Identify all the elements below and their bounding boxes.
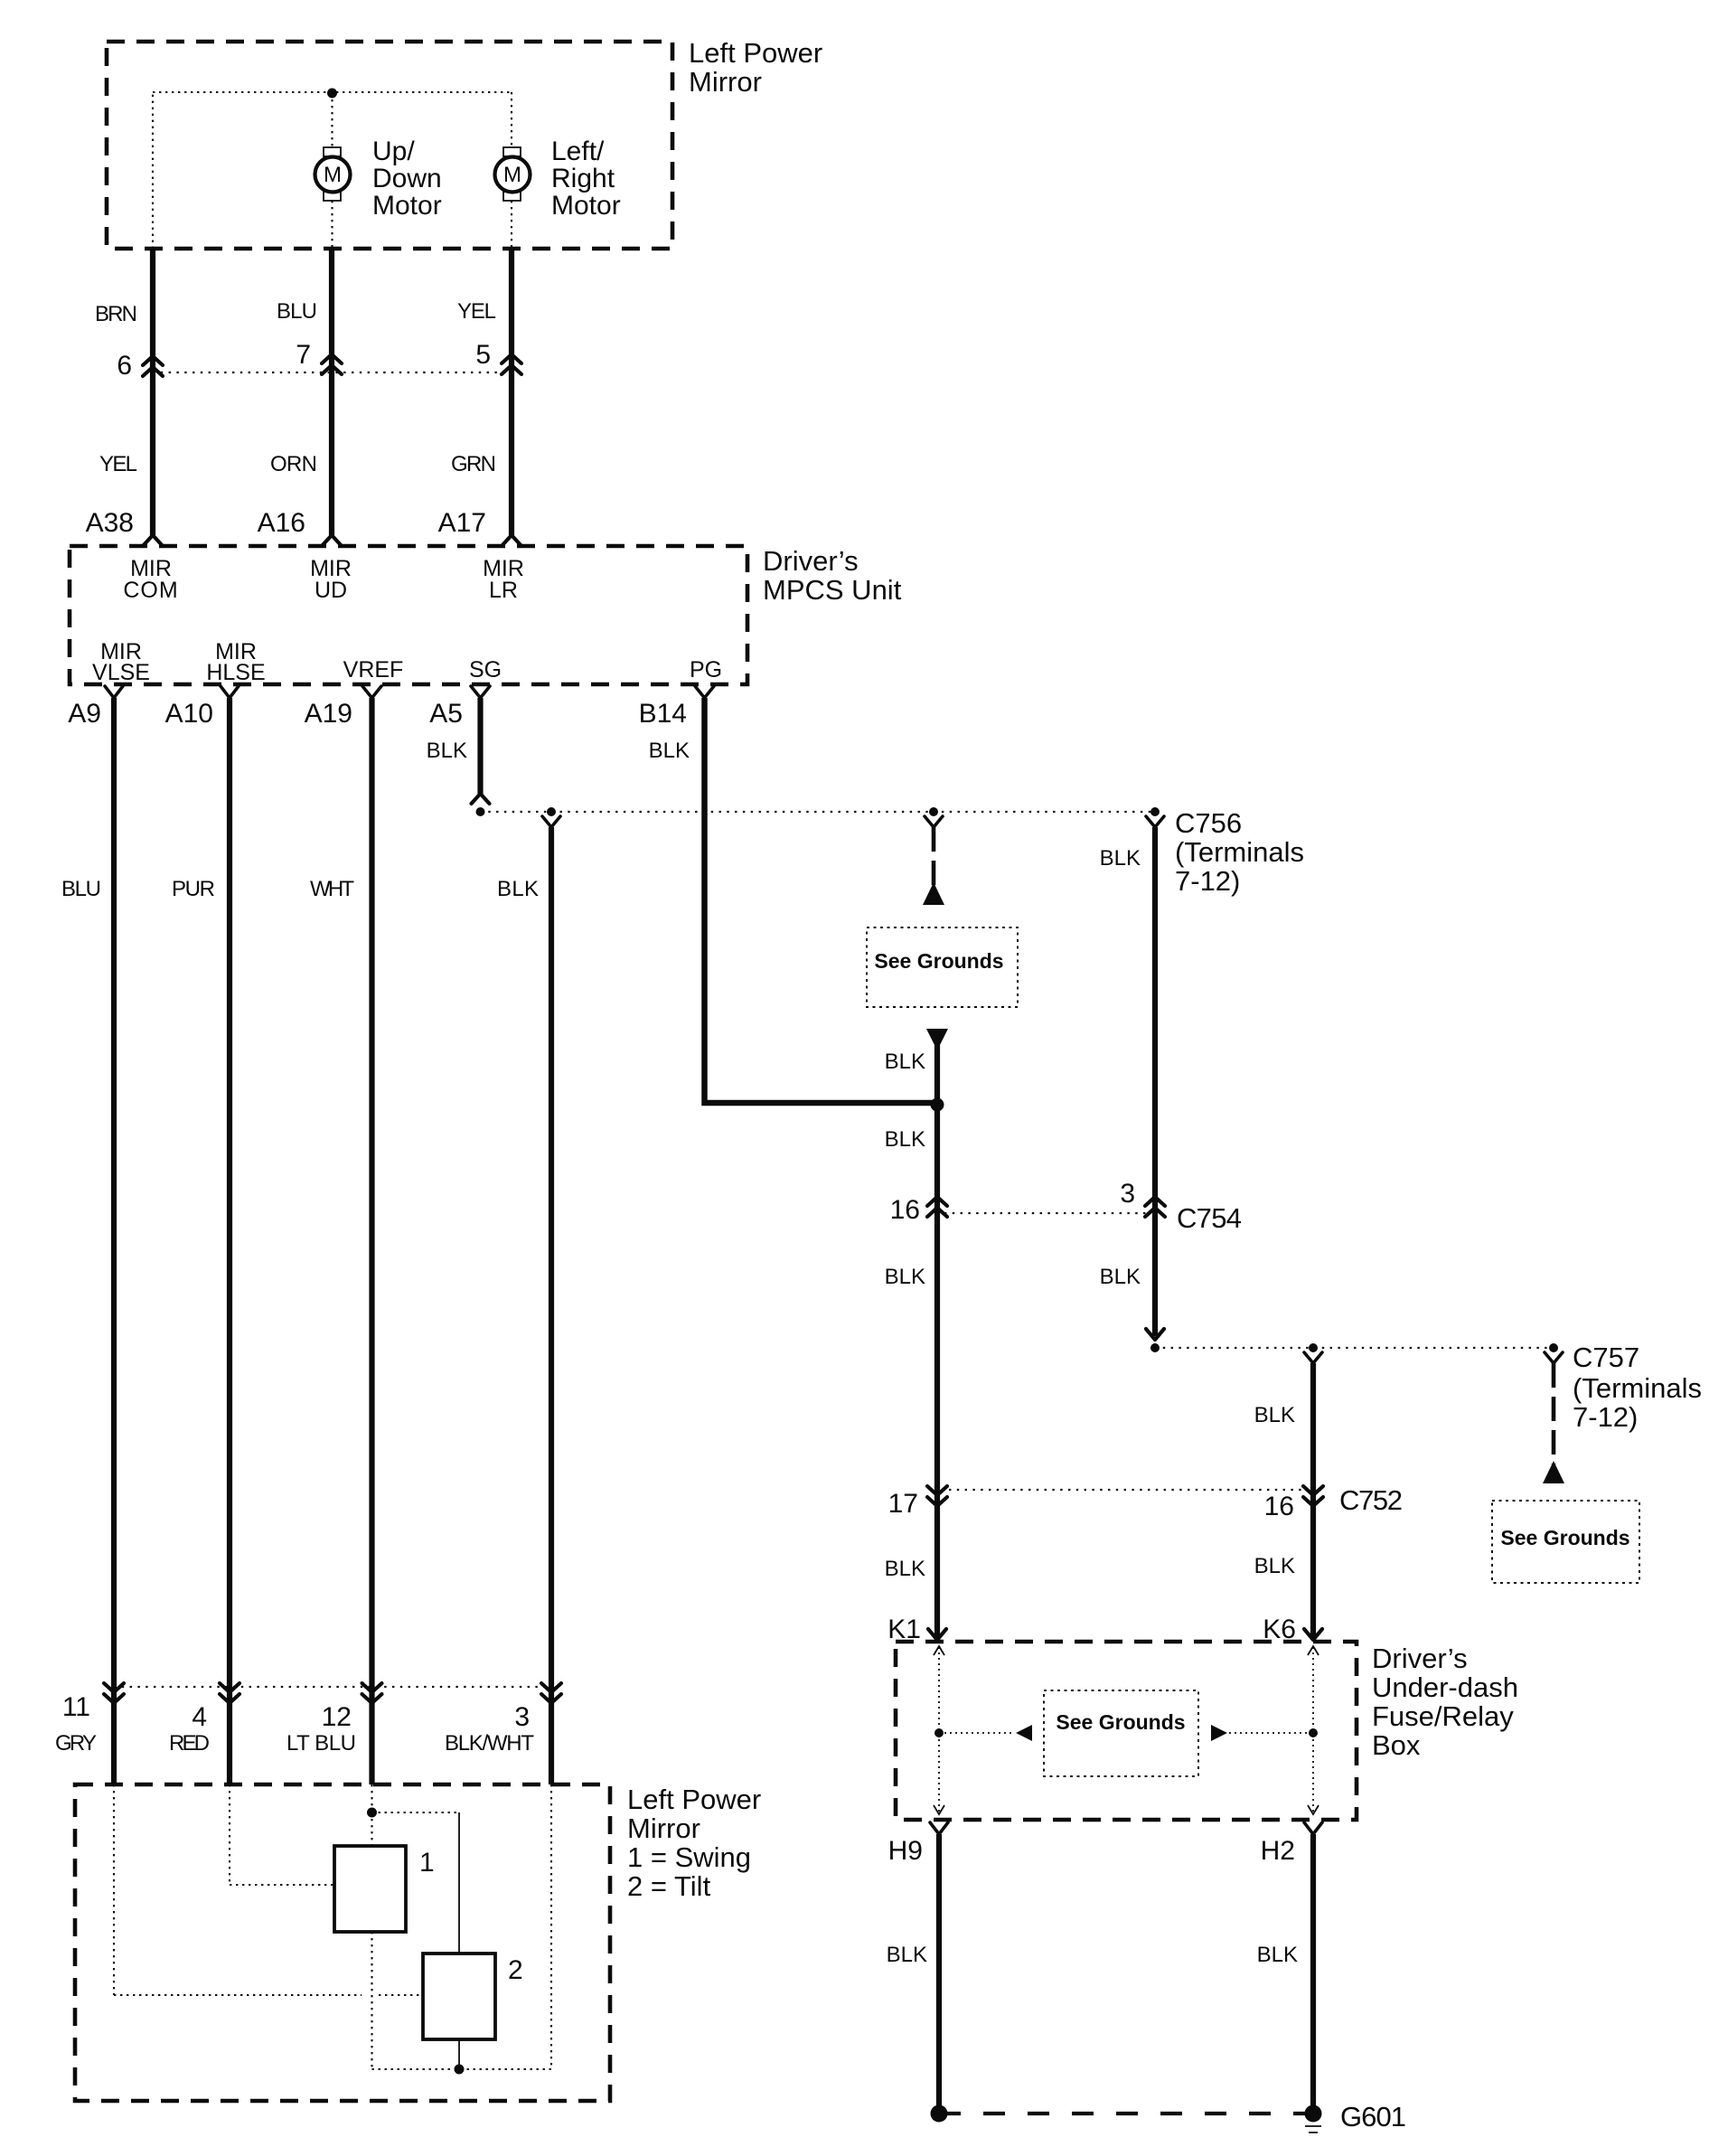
svg-text:(Terminals: (Terminals <box>1573 1372 1702 1404</box>
svg-text:Under-dash: Under-dash <box>1372 1671 1518 1703</box>
svg-text:Fuse/Relay: Fuse/Relay <box>1372 1700 1514 1732</box>
svg-text:B14: B14 <box>639 699 687 729</box>
label: Driver's MPCS Unit <box>763 545 902 606</box>
svg-text:A9: A9 <box>68 699 101 729</box>
connector: mirror in-line connector row (dotted) <box>114 1686 551 1688</box>
wire: BRN/YEL vertical (pin 6 to A38) <box>150 249 155 535</box>
C752 chevrons pin 16 <box>1303 1486 1323 1506</box>
svg-text:Mirror: Mirror <box>689 66 762 98</box>
pin label A5 <box>429 699 463 729</box>
svg-text:See Grounds: See Grounds <box>1500 1526 1629 1549</box>
svg-text:UD: UD <box>315 578 347 603</box>
left power mirror box (top) <box>107 42 672 249</box>
label: BLK (above C752 right) <box>1254 1403 1295 1427</box>
svg-text:YEL: YEL <box>99 452 137 476</box>
svg-text:VREF: VREF <box>343 657 404 683</box>
pin label H9 <box>888 1836 923 1866</box>
label: BRN <box>95 302 137 326</box>
svg-text:ORN: ORN <box>270 452 317 476</box>
Y connector to grounds (upper) <box>925 816 943 827</box>
wire: mirror common net (dotted, inside top box) <box>153 92 512 249</box>
svg-text:7-12): 7-12) <box>1573 1401 1638 1433</box>
svg-text:RED: RED <box>169 1731 210 1756</box>
ground arrow into see grounds (solid triangle) <box>923 882 944 905</box>
node: ground net junction at SG dotted line <box>929 807 938 816</box>
pin number 3 <box>514 1702 530 1732</box>
svg-text:Down: Down <box>372 164 442 193</box>
pin chevron K1 <box>928 1629 946 1640</box>
svg-text:BLK: BLK <box>1254 1403 1295 1427</box>
svg-text:C754: C754 <box>1177 1202 1242 1234</box>
wire: BLK from see grounds to junction <box>934 1045 940 1105</box>
svg-text:2 = Tilt: 2 = Tilt <box>627 1870 711 1902</box>
wire: BLK H2 to ground <box>1310 1834 1316 2114</box>
label: Up/ Down Motor <box>372 137 442 221</box>
svg-text:VLSE: VLSE <box>92 660 150 685</box>
internal link K1-H9 (dotted with arrows) <box>934 1646 944 1814</box>
pin chevron A16 at MPCS top edge <box>322 535 342 546</box>
svg-text:G601: G601 <box>1340 2101 1406 2132</box>
svg-text:BLK: BLK <box>885 1265 925 1289</box>
pin chevron A17 at MPCS top edge <box>502 535 521 546</box>
label: BLK (H9 wire) <box>887 1943 927 1967</box>
pin name MIR UD <box>310 556 352 603</box>
pin label K1 <box>887 1615 921 1644</box>
connector chevrons pin 11 <box>104 1683 124 1703</box>
label: BLK (above PG junction) <box>885 1050 925 1074</box>
node: C756 to ground-net dot <box>1150 1343 1160 1352</box>
svg-text:C752: C752 <box>1339 1484 1403 1516</box>
label: WHT (A19 wire) <box>310 877 354 901</box>
internal link K6-H2 (dotted with arrows) <box>1308 1646 1319 1814</box>
svg-text:11: 11 <box>62 1692 90 1722</box>
svg-text:BLU: BLU <box>61 877 101 901</box>
see grounds box (right) <box>1492 1501 1639 1583</box>
node: C756 branch dot on SG net <box>1150 807 1160 816</box>
pin label A19 <box>305 699 352 729</box>
wire: ground net dotted horizontal to C757 <box>1155 1347 1554 1349</box>
pin name VREF <box>343 657 404 683</box>
internal dotted branch to see grounds (left) <box>939 1732 1014 1734</box>
label: BLK (above K1) <box>885 1557 925 1581</box>
svg-text:(Terminals: (Terminals <box>1175 836 1304 868</box>
switch 2 (tilt) <box>423 1954 495 2039</box>
pin label A16 <box>258 508 305 538</box>
wire: LT BLU inside mirror (dotted) <box>371 1784 372 1812</box>
pin number 17 (C752) <box>888 1489 918 1519</box>
svg-text:BRN: BRN <box>95 302 137 326</box>
motor M2 left/right <box>495 147 531 201</box>
svg-text:BLK: BLK <box>427 739 467 763</box>
label: BLU (A9 wire) <box>61 877 101 901</box>
svg-text:12: 12 <box>322 1702 352 1732</box>
label: BLK (below C754 right) <box>1100 1265 1141 1289</box>
switch 1 (swing) <box>334 1846 406 1932</box>
svg-text:BLK: BLK <box>497 877 539 901</box>
node: PG joins ground column <box>931 1098 944 1112</box>
label: BLK (C756 wire upper) <box>1100 846 1141 871</box>
wire: YEL/GRN vertical (pin 5 to A17) <box>509 249 514 535</box>
svg-text:2: 2 <box>508 1955 523 1985</box>
pin label A38 <box>86 508 134 538</box>
svg-text:PUR: PUR <box>172 877 215 901</box>
Y connector top of K6 wire <box>1304 1352 1322 1363</box>
label: GRY <box>55 1731 97 1756</box>
svg-text:See Grounds: See Grounds <box>874 949 1003 973</box>
wire: BLU/ORN vertical (pin 7 to A16) <box>329 249 334 535</box>
svg-text:BLK: BLK <box>887 1943 927 1967</box>
label: RED <box>169 1731 210 1756</box>
svg-text:C757: C757 <box>1573 1342 1639 1373</box>
label: Left Power Mirror (top box) <box>689 37 822 98</box>
node: ground termination left <box>931 2105 948 2123</box>
pin label H2 <box>1261 1836 1295 1866</box>
label: BLU <box>277 299 317 324</box>
pin name MIR HLSE <box>206 639 265 685</box>
svg-text:See Grounds: See Grounds <box>1056 1710 1185 1734</box>
connector chevrons pin 6 <box>143 356 163 376</box>
internal ground arrow right (triangle) <box>1211 1725 1227 1741</box>
svg-text:HLSE: HLSE <box>206 660 265 685</box>
pin number 4 <box>192 1702 207 1732</box>
internal dotted branch to see grounds (right) <box>1229 1732 1313 1734</box>
svg-text:C756: C756 <box>1175 807 1242 839</box>
pin number 7 <box>296 340 311 370</box>
svg-text:H2: H2 <box>1261 1836 1295 1866</box>
pin number 16 (C752) <box>1264 1492 1294 1521</box>
Y connector top of C756 wire <box>1146 816 1164 827</box>
svg-text:GRY: GRY <box>55 1731 97 1756</box>
svg-text:A17: A17 <box>438 508 486 538</box>
svg-text:Box: Box <box>1372 1729 1421 1761</box>
pin Y connector A9 <box>105 686 123 698</box>
driver's under-dash fuse/relay box <box>896 1642 1357 1820</box>
svg-text:A16: A16 <box>258 508 305 538</box>
svg-text:YEL: YEL <box>457 299 496 324</box>
svg-text:BLK: BLK <box>1100 1265 1141 1289</box>
wire: junction to tilt switch top (dotted then solid) <box>372 1812 460 1954</box>
svg-text:7-12): 7-12) <box>1175 865 1240 897</box>
svg-text:Motor: Motor <box>551 191 621 221</box>
wire: junction down through swing switch (dotted) <box>371 1812 372 2069</box>
node: swing/tilt feed junction <box>367 1808 377 1818</box>
wire: common net to left/right motor top (dotted) <box>511 92 512 149</box>
wire: BLK stub from SG pin A5 <box>477 698 483 794</box>
label: ORN <box>270 452 317 476</box>
pin label K6 <box>1263 1615 1296 1644</box>
svg-text:5: 5 <box>475 340 491 370</box>
label: C757 (Terminals 7-12) <box>1573 1342 1702 1433</box>
SG wire end chevron <box>472 794 490 804</box>
connector: in-line connector row pins 6/7/5 (dotted) <box>153 372 512 373</box>
svg-text:BLK: BLK <box>649 739 690 763</box>
label: See Grounds (upper) <box>874 949 1003 973</box>
node: SG net dot <box>476 807 485 816</box>
pin Y connector A19 <box>362 686 381 698</box>
svg-text:COM: COM <box>123 578 178 603</box>
label: YEL (lower left) <box>99 452 137 476</box>
svg-text:BLK: BLK <box>885 1557 925 1581</box>
svg-text:A38: A38 <box>86 508 134 538</box>
ground arrow out of see grounds (solid triangle, base top) <box>926 1029 948 1050</box>
svg-text:PG: PG <box>690 657 722 683</box>
connector chevrons pin 7 <box>322 354 342 374</box>
label: BLK (below C754 left) <box>885 1265 925 1289</box>
wire: BLK H9 to ground <box>936 1834 942 2114</box>
label: BLK (mirror pin 3 wire) <box>497 877 539 901</box>
pin number 12 <box>322 1702 352 1732</box>
wire: GRY inside mirror (dotted) <box>114 1784 423 1995</box>
label: LT BLU <box>286 1731 356 1756</box>
pin Y connector A10 <box>221 686 239 698</box>
connector chevrons pin 12 <box>362 1683 382 1703</box>
svg-text:Left/: Left/ <box>551 137 605 166</box>
wire: left/right motor bottom to box edge (dotted) <box>511 201 512 249</box>
driver's MPCS unit box <box>70 546 747 684</box>
wire: WHT A19 vertical to mirror pin 12 <box>369 698 374 1784</box>
wire: PUR A10 vertical to mirror pin 4 <box>227 698 232 1784</box>
svg-text:Left Power: Left Power <box>689 37 822 69</box>
pin number 6 <box>117 351 132 381</box>
label: 2 (tilt switch) <box>508 1955 523 1985</box>
pin name MIR LR <box>483 556 524 603</box>
connector C752 dotted line <box>949 1489 1306 1491</box>
label: See Grounds (right) <box>1500 1526 1629 1549</box>
svg-text:16: 16 <box>890 1195 920 1225</box>
svg-text:A5: A5 <box>429 699 463 729</box>
wire: BLK/WHT inside mirror (dotted) <box>550 1784 552 2069</box>
svg-text:1 = Swing: 1 = Swing <box>627 1841 751 1873</box>
svg-text:Left Power: Left Power <box>627 1784 761 1815</box>
pin label A17 <box>438 508 486 538</box>
label: GRN <box>451 452 496 476</box>
wire: PG B14 vertical <box>705 698 938 1103</box>
wire: junction to up/down motor top (dotted) <box>331 93 333 149</box>
see grounds box (upper) <box>867 927 1018 1007</box>
label: G601 <box>1340 2101 1406 2132</box>
pin label A9 <box>68 699 101 729</box>
wire: up/down motor bottom to box edge (dotted) <box>331 201 333 249</box>
pin name SG <box>469 657 502 683</box>
svg-text:SG: SG <box>469 657 502 683</box>
label: C756 (Terminals 7-12) <box>1175 807 1304 897</box>
label: PUR (A10 wire) <box>172 877 215 901</box>
ground symbol G601 <box>1305 2126 1321 2132</box>
svg-text:Mirror: Mirror <box>627 1812 700 1844</box>
svg-text:MPCS Unit: MPCS Unit <box>763 574 902 606</box>
pin label A10 <box>165 699 213 729</box>
svg-text:BLK/WHT: BLK/WHT <box>445 1731 534 1756</box>
pin number 5 <box>475 340 491 370</box>
connector chevrons pin 5 <box>502 354 521 374</box>
svg-text:Up/: Up/ <box>372 137 415 166</box>
label: Driver's Under-dash Fuse/Relay Box <box>1372 1643 1518 1761</box>
svg-text:4: 4 <box>192 1702 207 1732</box>
pin Y connector H2 <box>1304 1822 1322 1834</box>
wire: bottom tie line (dotted) <box>372 2068 552 2070</box>
node: ground termination right G601 <box>1305 2105 1322 2123</box>
node: K6 branch dot <box>1309 1343 1318 1352</box>
pin Y connector A5 <box>471 686 490 698</box>
svg-text:1: 1 <box>419 1848 435 1878</box>
wire: BLU A9 vertical to mirror pin 11 <box>111 698 117 1784</box>
connector chevrons pin 3 <box>541 1683 561 1703</box>
svg-text:BLK: BLK <box>885 1050 925 1074</box>
svg-text:BLU: BLU <box>277 299 317 324</box>
label: 1 (swing switch) <box>419 1848 435 1878</box>
wire: ground bus dashed G601 <box>939 2112 1313 2115</box>
pin label B14 <box>639 699 687 729</box>
label: Left/ Right Motor <box>551 137 621 221</box>
label: YEL (upper right) <box>457 299 496 324</box>
pin number 3 (C754) <box>1120 1179 1135 1209</box>
Y connector top of C757 lead <box>1545 1352 1563 1363</box>
svg-text:M: M <box>503 163 521 187</box>
motor M1 up/down <box>315 147 351 201</box>
node: C757 branch dot <box>1549 1343 1558 1352</box>
C754 chevrons pin 16 <box>927 1197 947 1217</box>
node: junction at BLK wire to mirror pin 3 <box>547 807 556 816</box>
wire: tilt switch bottom pin (solid) <box>458 2039 460 2069</box>
label: BLK/WHT <box>445 1731 534 1756</box>
pin number 16 (C754) <box>890 1195 920 1225</box>
label: BLK (B14 wire) <box>649 739 690 763</box>
label: Left Power Mirror 1 = Swing 2 = Tilt <box>627 1784 761 1902</box>
svg-text:BLK: BLK <box>885 1127 925 1152</box>
svg-text:BLK: BLK <box>1257 1943 1298 1967</box>
pin Y connector B14 <box>695 686 714 698</box>
label: BLK (below PG junction) <box>885 1127 925 1152</box>
ground arrow C757 (solid triangle) <box>1543 1461 1564 1483</box>
svg-text:Motor: Motor <box>372 191 442 221</box>
svg-text:Driver’s: Driver’s <box>763 545 859 577</box>
pin chevron A38 at MPCS top edge <box>143 535 163 546</box>
wire: BLK down to K6 <box>1310 1363 1316 1640</box>
Y connector below SG net at BLK wire <box>542 816 560 827</box>
label: C752 <box>1339 1484 1403 1516</box>
node: tilt bottom junction <box>455 2065 465 2075</box>
svg-text:BLK: BLK <box>1100 846 1141 871</box>
pin chevron K6 <box>1304 1629 1322 1640</box>
pin name MIR VLSE <box>92 639 150 685</box>
svg-text:H9: H9 <box>888 1836 923 1866</box>
svg-text:A19: A19 <box>305 699 352 729</box>
C754 chevrons pin 3 <box>1145 1197 1165 1217</box>
node: internal ground branch right <box>1309 1728 1318 1737</box>
wire: BLK C756 vertical <box>1152 827 1158 1336</box>
wire: BLK vertical to mirror pin 3 <box>549 827 554 1784</box>
svg-text:Right: Right <box>551 164 615 193</box>
svg-text:6: 6 <box>117 351 132 381</box>
svg-text:Driver’s: Driver’s <box>1372 1643 1468 1674</box>
svg-text:GRN: GRN <box>451 452 496 476</box>
label: See Grounds (fuse box) <box>1056 1710 1185 1734</box>
pin name MIR COM <box>123 556 178 603</box>
wire: RED inside mirror (dotted) <box>230 1784 334 1885</box>
pin number 11 <box>62 1692 90 1722</box>
svg-text:7: 7 <box>296 340 311 370</box>
svg-text:17: 17 <box>888 1489 918 1519</box>
C756 wire end chevron <box>1146 1329 1164 1340</box>
connector chevrons pin 4 <box>220 1683 239 1703</box>
label: BLK (A5 wire) <box>427 739 467 763</box>
internal ground arrow left (triangle) <box>1016 1725 1032 1741</box>
svg-text:3: 3 <box>514 1702 530 1732</box>
wire: BLK ground column down to K1 <box>934 1105 940 1640</box>
pin Y connector H9 <box>930 1822 948 1834</box>
connector C754 dotted line <box>944 1212 1146 1214</box>
left power mirror box (bottom) <box>75 1784 610 2101</box>
C752 chevrons pin 17 <box>927 1486 947 1506</box>
node: common junction above up/down motor <box>327 89 337 99</box>
label: BLK (H2 wire) <box>1257 1943 1298 1967</box>
svg-text:LT BLU: LT BLU <box>286 1731 356 1756</box>
wire: SG ground net (dotted horizontal) <box>481 811 1156 813</box>
svg-text:A10: A10 <box>165 699 213 729</box>
svg-text:3: 3 <box>1120 1179 1135 1209</box>
ground lead (dash) to see-grounds arrow <box>932 827 936 886</box>
label: C754 <box>1177 1202 1242 1234</box>
pin name PG <box>690 657 722 683</box>
ground lead (dash) C757 <box>1552 1363 1556 1464</box>
svg-text:16: 16 <box>1264 1492 1294 1521</box>
svg-text:BLK: BLK <box>1254 1554 1295 1578</box>
svg-text:M: M <box>324 163 342 187</box>
see grounds box (fuse box) <box>1044 1690 1198 1776</box>
label: BLK (above K6) <box>1254 1554 1295 1578</box>
node: internal ground branch left <box>934 1728 944 1737</box>
svg-text:WHT: WHT <box>310 877 354 901</box>
svg-text:LR: LR <box>489 578 518 603</box>
